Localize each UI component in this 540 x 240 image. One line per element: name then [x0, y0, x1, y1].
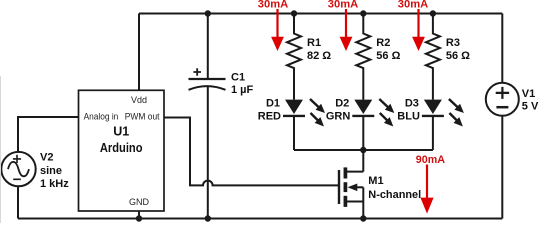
label C1	[231, 72, 254, 96]
svg-text:Arduino: Arduino	[100, 141, 143, 155]
label V2	[40, 151, 69, 190]
node junction bottom C1	[205, 215, 211, 221]
svg-text:90mA: 90mA	[416, 154, 445, 166]
wire GND stub	[138, 211, 140, 219]
wire C1 top	[207, 14, 209, 80]
LED D2	[352, 99, 394, 150]
svg-text:sine: sine	[40, 165, 62, 177]
wire Vdd riser	[138, 14, 140, 91]
wire right V1 bottom	[501, 116, 503, 219]
wire V2 bottom	[17, 186, 19, 218]
left page edge line	[0, 76, 2, 223]
svg-text:56 Ω: 56 Ω	[376, 50, 400, 62]
label R3	[446, 37, 470, 62]
node junction top R3	[430, 10, 436, 16]
node junction bottom GND	[136, 215, 142, 221]
label R2	[376, 37, 400, 62]
node junction bottom source	[360, 215, 366, 221]
wire V2 top	[18, 117, 79, 152]
label D3 BLU	[397, 97, 420, 122]
current arrow 30mA R3	[398, 0, 429, 51]
label V1 5V	[522, 88, 539, 112]
svg-text:1 kHz: 1 kHz	[40, 178, 69, 190]
svg-text:82 Ω: 82 Ω	[307, 50, 331, 62]
svg-text:5 V: 5 V	[522, 100, 539, 112]
svg-text:RED: RED	[258, 111, 281, 123]
svg-text:N-channel: N-channel	[368, 189, 421, 201]
capacitor C1	[189, 68, 226, 90]
svg-text:30mA: 30mA	[328, 0, 359, 11]
svg-text:GND: GND	[129, 197, 150, 207]
resistor R3	[426, 14, 440, 100]
svg-text:V2: V2	[40, 151, 53, 163]
wire C1 bottom	[207, 87, 209, 219]
svg-text:Analog in: Analog in	[84, 112, 119, 122]
svg-text:D2: D2	[335, 97, 349, 109]
svg-text:D3: D3	[405, 97, 419, 109]
resistor R2	[356, 14, 370, 100]
wire top rail	[139, 13, 502, 15]
wire bottom rail	[18, 218, 502, 220]
wire LED bottom rail	[294, 149, 433, 151]
svg-text:M1: M1	[368, 175, 383, 187]
node junction top R1	[291, 10, 297, 16]
svg-text:U1: U1	[113, 125, 129, 139]
svg-text:30mA: 30mA	[258, 0, 289, 11]
svg-text:BLU: BLU	[397, 111, 420, 123]
current arrow 30mA R1	[258, 0, 289, 51]
label M1 N-channel	[368, 175, 421, 201]
resistor R1	[287, 14, 301, 100]
voltage source V2 sine	[1, 152, 35, 186]
transistor M1 N-channel MOSFET	[339, 167, 363, 207]
svg-text:30mA: 30mA	[398, 0, 429, 11]
voltage source V1	[486, 83, 519, 116]
node junction top C1	[205, 10, 211, 16]
label R1	[307, 37, 331, 62]
svg-text:R2: R2	[376, 37, 390, 49]
svg-text:R1: R1	[307, 37, 321, 49]
wire PWM out with hop over C1	[164, 118, 339, 186]
svg-text:56 Ω: 56 Ω	[446, 50, 470, 62]
svg-text:R3: R3	[446, 37, 460, 49]
svg-text:PWM out: PWM out	[125, 112, 160, 122]
label D2 GRN	[326, 97, 351, 122]
svg-text:D1: D1	[266, 97, 280, 109]
node junction top R2	[360, 10, 366, 16]
current arrow 30mA R2	[328, 0, 359, 51]
wire right V1 top	[501, 14, 503, 83]
svg-text:GRN: GRN	[326, 111, 351, 123]
node junction LED rail / drain	[360, 147, 366, 153]
svg-text:C1: C1	[231, 72, 245, 84]
svg-text:V1: V1	[522, 88, 535, 100]
svg-text:1 µF: 1 µF	[231, 84, 254, 96]
wire MOSFET source drop	[362, 187, 364, 218]
LED D3	[422, 99, 464, 150]
svg-text:Vdd: Vdd	[131, 95, 147, 105]
IC U1 Arduino block	[79, 90, 165, 211]
LED D1	[283, 99, 325, 150]
label D1 RED	[258, 97, 281, 122]
wire MOSFET drain riser	[362, 150, 364, 172]
current arrow 90mA	[416, 154, 445, 214]
